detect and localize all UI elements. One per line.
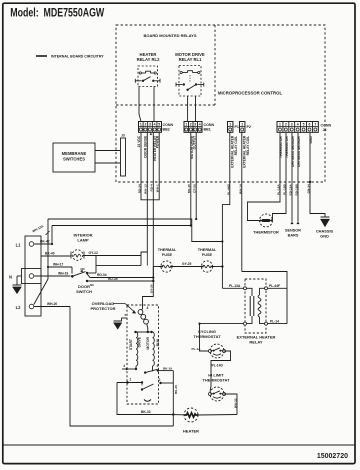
- wire motor 2 down BK-20: [172, 371, 174, 426]
- overload protector: [138, 310, 143, 315]
- external heater relay coil: [260, 288, 267, 295]
- svg-text:WH-13: WH-13: [144, 184, 148, 194]
- wire J4 gnd down GN-34: [310, 133, 325, 217]
- svg-text:LAMP: LAMP: [77, 238, 89, 243]
- svg-text:4: 4: [154, 123, 156, 127]
- svg-text:WH-17: WH-17: [53, 263, 63, 267]
- svg-text:P2: P2: [247, 125, 251, 129]
- svg-text:CONN: CONN: [321, 124, 332, 128]
- wire membrane to J3 lower: [95, 162, 121, 164]
- wire BB1 pin3 down OT-50: [195, 132, 197, 219]
- svg-text:PL-14D: PL-14D: [212, 364, 224, 368]
- wire to cycling thermostat PL-4A: [200, 324, 209, 351]
- svg-text:1: 1: [185, 123, 187, 127]
- wire J4 pin3 down RD-19A: [291, 133, 293, 222]
- terminal block: [25, 236, 41, 316]
- svg-text:BARS: BARS: [288, 233, 299, 237]
- svg-text:RUN: RUN: [156, 338, 160, 346]
- wire BB2 pin4 down: [152, 132, 154, 282]
- svg-text:J4: J4: [323, 128, 327, 132]
- svg-text:MEMBRANE: MEMBRANE: [62, 151, 87, 156]
- svg-text:CONN: CONN: [204, 123, 215, 127]
- svg-text:INTERNAL BOARD CIRCUITRY: INTERNAL BOARD CIRCUITRY: [51, 55, 104, 59]
- wire L2 trunk down and bottom run: [70, 307, 173, 427]
- svg-text:RELAY COIL: RELAY COIL: [234, 136, 238, 156]
- microprocessor control board dashed box: [116, 25, 325, 182]
- trunk A upper: [48, 219, 222, 242]
- svg-text:1: 1: [229, 123, 231, 127]
- connector P1: [228, 122, 233, 133]
- svg-text:PL-13A: PL-13A: [229, 284, 241, 288]
- ladder row to lamp vertical: [96, 265, 141, 267]
- svg-text:WH-14: WH-14: [239, 184, 243, 194]
- wire J4 pin1 down PL-19A: [248, 133, 281, 221]
- svg-text:OT-50: OT-50: [193, 184, 197, 193]
- svg-text:2: 2: [144, 123, 146, 127]
- svg-text:WH-1: WH-1: [156, 184, 160, 192]
- svg-text:THERMAL: THERMAL: [198, 248, 217, 252]
- connector J3: [121, 138, 126, 176]
- svg-text:7: 7: [314, 123, 316, 127]
- wire lamp feed BK-40: [41, 255, 71, 257]
- wire riser trunk B to L1: [51, 226, 53, 245]
- wire cycling to hi-limit PL-14D: [211, 351, 231, 386]
- wire BB2 pin2 down: [146, 132, 148, 200]
- svg-text:Model: MDE7550AGW: Model: MDE7550AGW: [10, 7, 104, 19]
- svg-text:RD-35: RD-35: [108, 277, 118, 281]
- svg-text:BK-40: BK-40: [45, 252, 55, 256]
- svg-text:PL-4A: PL-4A: [192, 347, 202, 351]
- wire BB2 pin1 down: [140, 132, 142, 193]
- svg-text:THERMISTOR: THERMISTOR: [253, 230, 279, 235]
- svg-text:DRIVE: DRIVE: [138, 336, 142, 347]
- svg-text:1: 1: [241, 123, 243, 127]
- svg-text:SENSOR: SENSOR: [285, 229, 301, 233]
- motor start winding: [136, 332, 138, 366]
- svg-text:MICROPROCESSOR CONTROL: MICROPROCESSOR CONTROL: [218, 91, 283, 96]
- svg-text:GND: GND: [320, 233, 329, 238]
- wire PL-13A into relay: [222, 287, 243, 289]
- connector CONN J4: [277, 122, 318, 133]
- connector CONN BB1: [184, 122, 202, 133]
- wire motor 5 to right BK-19: [158, 370, 174, 372]
- svg-text:NC: NC: [90, 283, 94, 287]
- relay RL2 contacts: [142, 80, 144, 82]
- sensor bars tips: [290, 222, 293, 225]
- svg-text:4: 4: [123, 364, 125, 368]
- svg-text:WH-33: WH-33: [233, 398, 237, 408]
- svg-text:HEATER: HEATER: [183, 429, 199, 434]
- wire BB2 pin5 down: [158, 132, 160, 193]
- wire motor 1 to bottom BK-33: [117, 383, 168, 415]
- svg-text:15002720: 15002720: [317, 453, 348, 460]
- svg-text:GY-25: GY-25: [182, 262, 192, 266]
- inner bottom rule: [3, 444, 355, 446]
- svg-text:RD-19A: RD-19A: [288, 184, 292, 196]
- external heater relay box: [245, 279, 266, 333]
- svg-text:GND: GND: [309, 136, 313, 144]
- svg-text:3: 3: [194, 123, 196, 127]
- wire P2 down WH-14: [241, 132, 243, 271]
- centrifugal actuator: [144, 400, 151, 402]
- wire BB2 pin2 step ladder: [141, 200, 147, 266]
- svg-text:N: N: [9, 274, 12, 279]
- svg-text:CONN: CONN: [163, 123, 174, 127]
- svg-text:GN-34: GN-34: [306, 184, 310, 193]
- svg-text:1: 1: [140, 123, 142, 127]
- svg-text:PL-19A: PL-19A: [276, 184, 280, 195]
- wire J4 pin2 down PL-19B: [273, 133, 287, 221]
- svg-text:THERMOSTAT: THERMOSTAT: [202, 378, 230, 383]
- svg-text:4: 4: [297, 123, 299, 127]
- terminal L1: [29, 242, 34, 247]
- svg-text:RD-34: RD-34: [97, 273, 107, 277]
- membrane switches box: [53, 143, 95, 172]
- svg-text:L2: L2: [16, 305, 22, 310]
- svg-text:GY-30: GY-30: [150, 284, 154, 293]
- svg-text:2: 2: [190, 123, 192, 127]
- wire fuse chain: [153, 266, 161, 268]
- legend internal board circuitry: [36, 55, 47, 57]
- svg-text:PROTECTOR: PROTECTOR: [90, 306, 115, 311]
- hi limit thermostat: [210, 387, 224, 401]
- svg-text:L1: L1: [16, 242, 22, 247]
- svg-text:WH-19: WH-19: [58, 272, 68, 276]
- svg-text:SWITCH: SWITCH: [76, 289, 92, 294]
- svg-text:1: 1: [130, 378, 132, 382]
- svg-text:THERMOSTAT: THERMOSTAT: [193, 334, 221, 339]
- motor ground: [122, 317, 128, 319]
- motor switch row 5: [135, 366, 137, 369]
- svg-text:BB1: BB1: [204, 128, 211, 132]
- svg-text:GY-12: GY-12: [89, 251, 99, 255]
- wire BB2 loop: [141, 193, 159, 200]
- connector P2: [240, 122, 245, 133]
- door switch: [71, 275, 74, 278]
- relay RL2 heater relay: [138, 66, 158, 87]
- svg-text:4: 4: [199, 123, 201, 127]
- wire hi-limit to heater WH-33: [224, 394, 237, 415]
- wire J4 pin4 down RD-19B: [297, 133, 299, 222]
- svg-text:2: 2: [285, 123, 287, 127]
- svg-text:RELAY COIL: RELAY COIL: [246, 136, 250, 156]
- svg-text:J3: J3: [121, 134, 125, 138]
- svg-text:PL-44B: PL-44B: [227, 184, 231, 195]
- wire motor feed from fuse junction: [141, 309, 142, 310]
- wire RL1 to CONN BB1: [187, 96, 189, 122]
- svg-text:5: 5: [158, 123, 160, 127]
- svg-text:2: 2: [159, 378, 161, 382]
- svg-text:RD-19B: RD-19B: [294, 184, 298, 196]
- svg-text:BOARD MOUNTED RELAYS: BOARD MOUNTED RELAYS: [144, 33, 197, 38]
- svg-text:BK-19: BK-19: [163, 366, 172, 370]
- svg-text:RD-4: RD-4: [150, 184, 154, 191]
- svg-text:RELAY RL1: RELAY RL1: [179, 57, 202, 62]
- svg-text:5: 5: [303, 123, 305, 127]
- svg-text:START: START: [129, 338, 133, 350]
- svg-text:BB2: BB2: [163, 128, 170, 132]
- wire RL2 to CONN BB2: [139, 87, 141, 122]
- wire WH-17 to door switch pole: [48, 266, 72, 268]
- svg-text:WH-20: WH-20: [47, 302, 57, 306]
- external heater relay contact plates: [245, 288, 252, 296]
- wire membrane to J3 upper: [95, 150, 121, 152]
- wire RD-34 trunk: [87, 274, 153, 278]
- connector CONN BB2: [139, 122, 162, 133]
- svg-text:BK-45: BK-45: [187, 184, 191, 193]
- svg-text:4: 4: [147, 306, 149, 310]
- wire lamp return down to door switch NO: [95, 256, 97, 274]
- svg-text:FUSE: FUSE: [202, 253, 213, 257]
- svg-text:RELAY RL2: RELAY RL2: [137, 57, 160, 62]
- heater: [184, 408, 198, 422]
- svg-text:RELAY: RELAY: [249, 340, 263, 345]
- relay RL1 contacts: [183, 83, 185, 85]
- wire to thermal fuse riser GY-30: [143, 281, 154, 309]
- svg-text:1: 1: [279, 123, 281, 127]
- terminal L2: [29, 304, 34, 309]
- motor run winding: [153, 332, 155, 366]
- svg-text:THERMAL: THERMAL: [158, 248, 177, 252]
- svg-text:PL-19B: PL-19B: [282, 184, 286, 195]
- motor winding bus: [136, 331, 152, 333]
- wire N WH-19: [34, 275, 70, 277]
- wire BB1 pin2 down BK-45: [190, 132, 192, 225]
- svg-text:MOTOR: MOTOR: [146, 336, 150, 349]
- wire riser trunk A to L2 diagonal: [47, 219, 49, 279]
- trunk B lower: [52, 225, 191, 227]
- svg-text:P1: P1: [235, 125, 239, 129]
- svg-text:SWITCHES: SWITCHES: [63, 157, 85, 162]
- relay terminals: [244, 287, 247, 290]
- svg-text:6: 6: [309, 123, 311, 127]
- svg-text:RD-34: RD-34: [137, 184, 141, 193]
- thermistor: [260, 214, 273, 227]
- svg-text:3: 3: [149, 123, 151, 127]
- terminal N: [29, 274, 34, 279]
- chassis ground symbol: [321, 216, 330, 218]
- wire L2 WH-20: [34, 306, 70, 308]
- svg-text:FUSE: FUSE: [162, 253, 173, 257]
- wire P2 to PL-44F: [242, 272, 287, 324]
- wire L1 BK-42: [34, 243, 52, 245]
- svg-text:BK-33: BK-33: [141, 410, 151, 414]
- ground at neutral: [17, 275, 22, 277]
- wire lamp GY-12: [83, 255, 141, 257]
- relay RL1 motor drive relay: [179, 66, 201, 97]
- wire P1 down PL-44B: [222, 132, 229, 288]
- overload protector pointer: [113, 304, 135, 313]
- drive motor dashed box: [127, 305, 159, 404]
- svg-text:3: 3: [291, 123, 293, 127]
- svg-text:5: 5: [157, 364, 159, 368]
- svg-text:PL-44F: PL-44F: [269, 284, 280, 288]
- wire RD-35 trunk: [87, 280, 153, 282]
- board mounted relays dashed sub-box: [214, 25, 216, 105]
- svg-text:PL-14: PL-14: [270, 319, 279, 323]
- wire PL-14 right stub: [268, 323, 288, 325]
- wire relay bottom row: [200, 323, 244, 325]
- cycling thermostat: [210, 344, 224, 358]
- svg-text:BK-20: BK-20: [174, 385, 178, 394]
